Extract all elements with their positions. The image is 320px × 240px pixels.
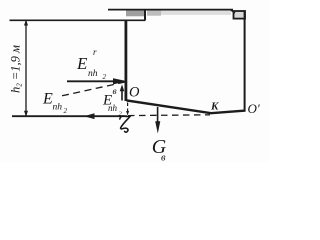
svg-text:в: в [113, 87, 117, 97]
svg-text:r: r [93, 47, 97, 57]
svg-text:E: E [76, 54, 88, 73]
svg-text:в: в [161, 153, 166, 163]
svg-text:O: O [129, 85, 140, 101]
svg-text:2: 2 [64, 107, 68, 115]
svg-text:E: E [42, 91, 53, 108]
svg-text:nh: nh [108, 103, 118, 113]
svg-text:K: K [210, 101, 219, 113]
svg-text:nh: nh [88, 69, 98, 79]
svg-text:nh: nh [53, 103, 63, 113]
svg-text:2: 2 [103, 73, 107, 81]
svg-text:O′: O′ [248, 101, 260, 116]
